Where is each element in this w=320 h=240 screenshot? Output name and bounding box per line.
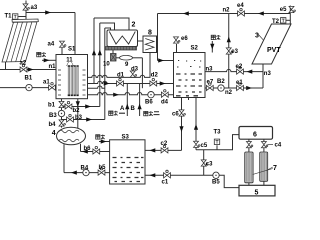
- svg-text:B6: B6: [145, 100, 153, 106]
- svg-text:e2: e2: [236, 64, 243, 70]
- svg-text:7: 7: [273, 165, 277, 172]
- svg-text:c1: c1: [162, 180, 169, 186]
- svg-text:T1: T1: [5, 14, 13, 20]
- svg-text:b6: b6: [84, 146, 92, 152]
- svg-text:e4: e4: [237, 3, 244, 9]
- svg-text:b3: b3: [75, 115, 83, 121]
- svg-text:n3: n3: [206, 67, 214, 73]
- svg-text:n2: n2: [223, 8, 231, 14]
- svg-text:4: 4: [52, 130, 56, 137]
- svg-text:c2: c2: [161, 141, 168, 147]
- svg-text:e1: e1: [236, 80, 243, 86]
- svg-text:B4: B4: [81, 166, 89, 172]
- svg-text:b5: b5: [99, 165, 107, 171]
- svg-text:a3: a3: [31, 5, 38, 11]
- svg-text:11: 11: [66, 57, 73, 63]
- svg-text:c4: c4: [275, 143, 282, 149]
- svg-text:2: 2: [132, 22, 136, 29]
- svg-text:B2: B2: [217, 79, 225, 85]
- svg-text:5: 5: [255, 189, 259, 196]
- svg-text:c6: c6: [172, 112, 179, 118]
- svg-text:c3: c3: [206, 161, 213, 167]
- svg-text:6: 6: [253, 132, 257, 139]
- svg-text:B: B: [131, 106, 136, 112]
- svg-text:b2: b2: [73, 108, 81, 114]
- svg-text:d3: d3: [131, 67, 139, 73]
- svg-text:n2: n2: [225, 90, 233, 96]
- svg-text:A: A: [120, 106, 125, 112]
- svg-text:B3: B3: [49, 113, 57, 119]
- svg-text:T3: T3: [214, 130, 222, 136]
- svg-text:S3: S3: [122, 135, 130, 141]
- svg-text:d4: d4: [161, 100, 169, 106]
- svg-text:S1: S1: [68, 47, 76, 53]
- svg-text:PVT: PVT: [267, 47, 281, 54]
- svg-text:c5: c5: [201, 143, 208, 149]
- svg-text:B1: B1: [25, 76, 33, 82]
- svg-text:e3: e3: [231, 49, 238, 55]
- svg-text:n3: n3: [264, 71, 272, 77]
- svg-text:d1: d1: [117, 72, 125, 78]
- svg-text:e6: e6: [181, 36, 188, 42]
- svg-text:B5: B5: [212, 180, 220, 186]
- svg-text:T2: T2: [272, 19, 280, 25]
- svg-text:3: 3: [255, 33, 259, 40]
- svg-text:a1: a1: [43, 80, 50, 86]
- svg-text:n1: n1: [49, 64, 57, 70]
- svg-text:b1: b1: [48, 103, 56, 109]
- svg-text:8: 8: [148, 30, 152, 37]
- svg-text:a4: a4: [48, 42, 55, 48]
- svg-text:S2: S2: [191, 46, 199, 52]
- svg-text:10: 10: [103, 62, 110, 68]
- svg-text:e7: e7: [207, 80, 214, 86]
- svg-text:d2: d2: [151, 72, 159, 78]
- svg-text:a2: a2: [20, 61, 27, 67]
- svg-text:b4: b4: [49, 122, 57, 128]
- svg-text:e5: e5: [280, 7, 287, 13]
